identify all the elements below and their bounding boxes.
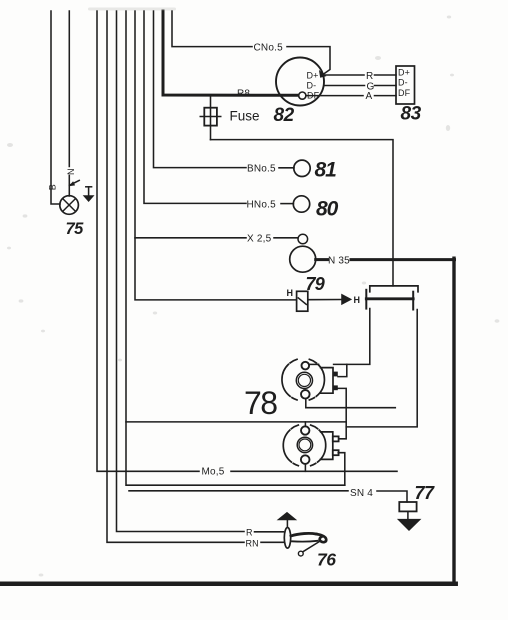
wire BN0,5 to terminal 81 [154,11,295,168]
svg-text:D+: D+ [307,70,319,80]
svg-text:81: 81 [315,158,337,181]
wire R8 thick feed to generator DF [163,11,299,95]
svg-text:N 35: N 35 [328,255,350,266]
horn 1 bracket [320,368,333,394]
svg-text:DF: DF [398,88,411,98]
wire N35 thick to right rail [316,258,455,261]
horn 1 top terminal [302,362,310,370]
svg-text:A: A [366,91,373,102]
svg-text:H: H [287,288,294,298]
svg-text:B: B [48,184,58,190]
wire CN0,5 to generator D+ [172,11,330,75]
wire M0,5 from left vertical to horn bottom [97,11,397,471]
svg-text:H: H [354,295,361,305]
connector plug right bar [412,292,414,310]
svg-text:D-: D- [307,80,317,90]
horn 2 bottom terminal [301,455,310,464]
wire horn 2 bottom terminal stub [304,464,306,472]
horn button 76 arrow up [277,512,298,520]
horn button 76 contact dot [298,551,303,556]
svg-text:DF: DF [307,91,320,101]
svg-text:SN 4: SN 4 [350,488,373,499]
horn 1 body [282,359,324,400]
wire connector left leg to horn1 top [334,309,370,377]
generator U 82 [276,58,324,106]
wire connector right leg to horn2 [346,310,417,427]
svg-text:83: 83 [401,104,422,125]
terminal DF circle on 82 [299,92,306,99]
wire HN0,5 to terminal 80 [144,11,293,204]
capacitor 77 [399,502,416,519]
svg-text:D-: D- [398,77,408,87]
wire horn 1 bottom terminal lead [306,399,396,408]
svg-text:BNo.5: BNo.5 [247,163,276,174]
node H arrow [342,295,351,304]
wire bottom rail thick [1,581,456,586]
svg-text:80: 80 [316,197,339,220]
wire 76 arrow stem [286,520,288,527]
wire SN vertical with branch at y422 [126,11,345,485]
wire horn1 bottom tab to horn2 top tab [338,388,346,438]
svg-text:Fuse: Fuse [230,108,260,123]
horn 1 bottom terminal [301,390,310,399]
wire horn 2 top terminal stub [304,422,306,427]
svg-text:R: R [246,527,253,537]
svg-text:HNo.5: HNo.5 [247,199,277,210]
svg-text:79: 79 [306,274,325,294]
ground 77 [397,519,422,531]
relay 79 flasher box [297,291,308,311]
terminal 81 circle [294,160,310,176]
terminal N large circle [290,246,316,272]
wire right rail thick [452,258,455,584]
horn 1 inner ring [296,372,312,388]
lamp 75 [60,196,79,215]
svg-text:76: 76 [317,550,336,570]
wire 75 arrow stem [88,187,90,195]
wire SN 4 to capacitor 77 [129,491,407,502]
horn 2 top terminal [301,426,309,434]
switch 75 blade [69,180,80,186]
wire X/H vertical with X2,5 branch and 79 feed [135,11,298,300]
node D+ arrow dot [320,72,325,77]
regulator block 83 [396,66,415,104]
connector plug thick blade [366,297,413,300]
wire G to regulator [324,85,396,87]
wire R vertical to 76 [117,11,284,532]
horn 2 bracket [321,432,333,460]
horn 1 bottom tab [333,385,338,390]
wire B vertical to lamp 75 [51,11,60,204]
horn button 76 lever [291,533,326,542]
svg-text:R8: R8 [237,89,250,100]
wire RN vertical to 76 [107,11,284,542]
svg-text:Mo,5: Mo,5 [202,467,225,478]
ground arrow 75 [83,195,95,202]
wire fuse to connector stem [211,140,394,286]
svg-text:75: 75 [66,220,85,238]
wire 76 contact diagonal [303,542,319,552]
horn button 76 column contact [284,528,290,549]
wire horn 1 top terminal stub [309,363,318,365]
wire 79 to H arrow [308,299,342,301]
svg-text:78: 78 [244,385,277,421]
node 75 arrow bar [86,186,92,188]
wire A to regulator [306,95,396,97]
connector plug left bar [365,290,367,309]
terminal X small circle [298,234,308,244]
svg-text:77: 77 [415,483,436,503]
svg-text:X 2,5: X 2,5 [247,233,272,244]
wire long horizontal y422 to horns [126,421,346,423]
wire horn 2 bottom tab lead down [338,453,345,486]
svg-text:82: 82 [274,105,295,126]
wire N vertical to switch 75 [68,11,70,196]
horn 2 body [283,425,325,466]
horn 2 top tab [333,436,339,441]
terminal 80 circle [293,196,309,212]
fuse F1 [200,96,220,140]
wire R to regulator [325,74,397,76]
svg-text:R: R [366,71,373,82]
connector socket top bracket [370,286,418,292]
svg-text:RN: RN [246,538,259,548]
horn 2 bottom tab [333,450,339,455]
svg-text:CNo.5: CNo.5 [254,43,284,54]
horn 2 inner ring [297,437,312,452]
svg-text:D+: D+ [398,67,410,77]
smudge marks [88,8,176,11]
svg-text:N: N [66,168,76,175]
horn 1 top tab [333,372,338,377]
